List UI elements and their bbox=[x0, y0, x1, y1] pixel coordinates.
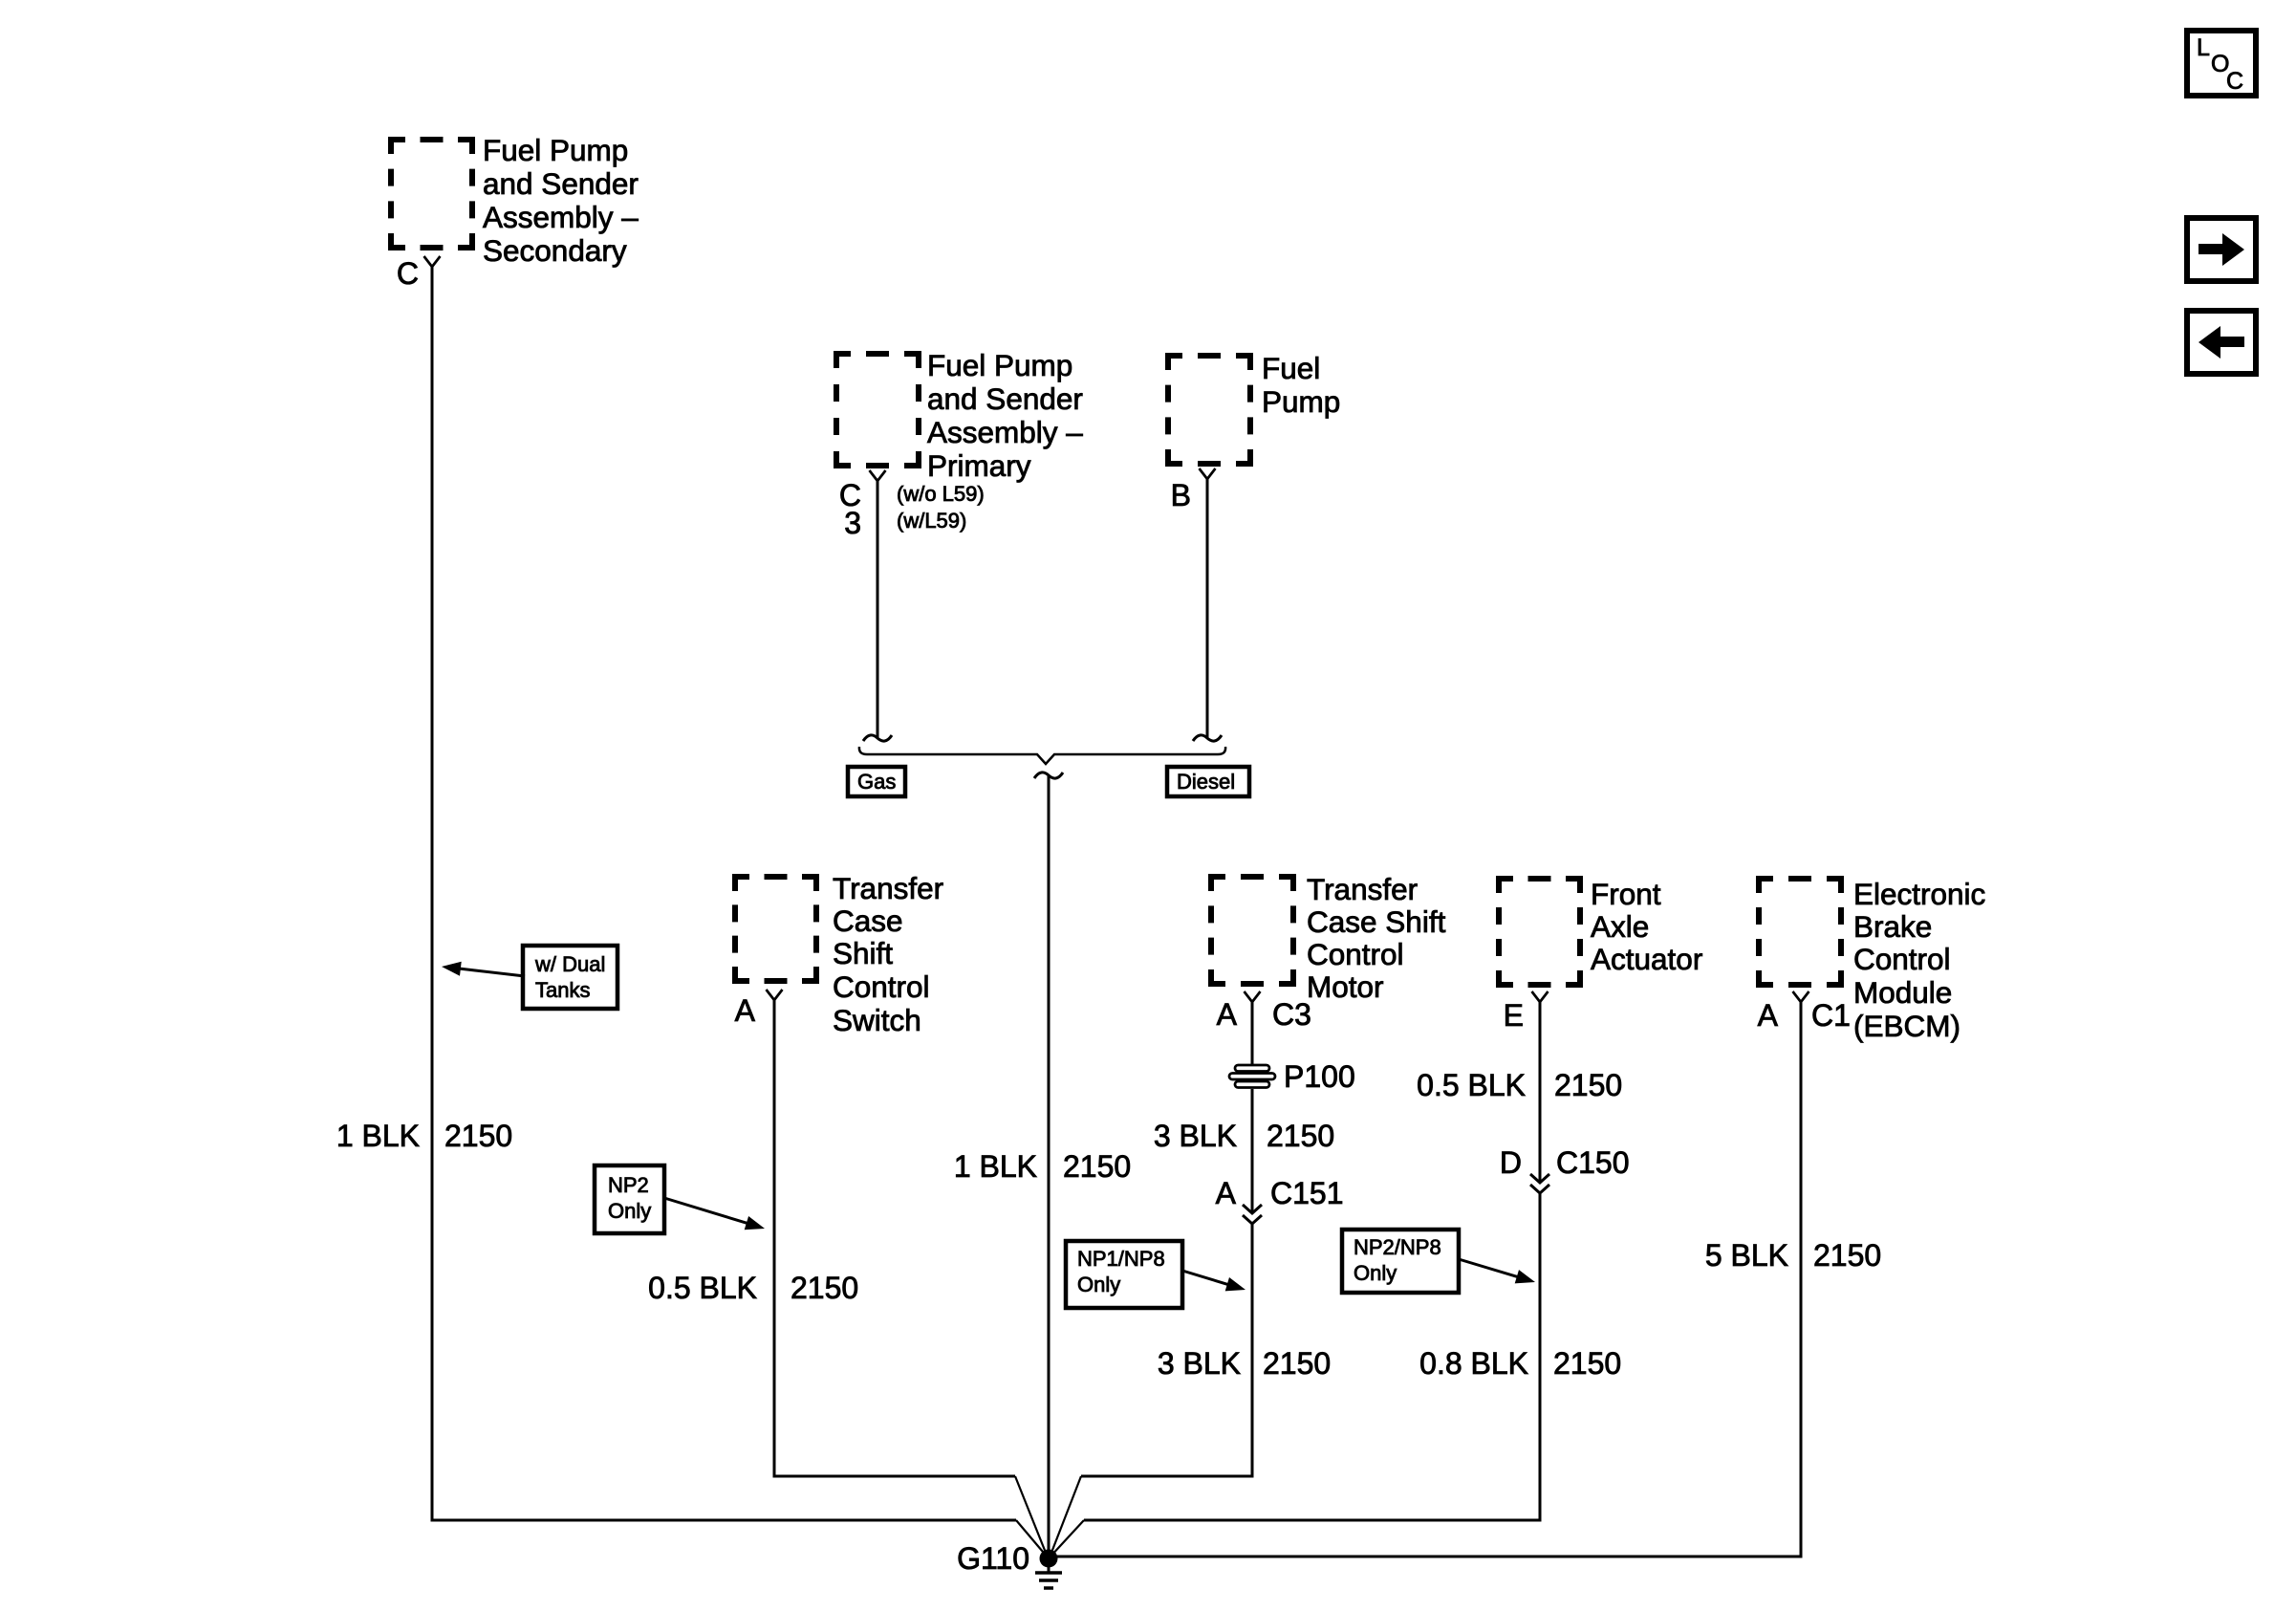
svg-text:Actuator: Actuator bbox=[1591, 942, 1702, 976]
svg-text:Assembly –: Assembly – bbox=[483, 200, 639, 234]
svg-text:C: C bbox=[2226, 68, 2243, 95]
wire center ground bbox=[1048, 776, 1051, 1558]
svg-text:A: A bbox=[1758, 998, 1779, 1033]
svg-text:Only: Only bbox=[1354, 1261, 1397, 1285]
svg-text:w/ Dual: w/ Dual bbox=[534, 952, 605, 976]
connector at pin E bbox=[1532, 991, 1549, 1002]
connector at pin A EBCM bbox=[1793, 991, 1809, 1002]
svg-text:NP2: NP2 bbox=[608, 1173, 649, 1197]
svg-text:0.5 BLK: 0.5 BLK bbox=[1417, 1068, 1526, 1102]
component Front Axle Actuator (dashed box) bbox=[1499, 879, 1580, 985]
svg-text:Case: Case bbox=[833, 903, 903, 938]
page icon LOC bbox=[2187, 31, 2256, 96]
svg-text:G110: G110 bbox=[957, 1541, 1029, 1576]
svg-text:and Sender: and Sender bbox=[927, 381, 1083, 416]
wire label 3 BLK 2150 (upper) bbox=[1154, 1119, 1334, 1153]
svg-text:Front: Front bbox=[1591, 877, 1661, 911]
option box Gas bbox=[848, 767, 905, 796]
svg-text:1 BLK: 1 BLK bbox=[954, 1149, 1037, 1184]
svg-text:(EBCM): (EBCM) bbox=[1853, 1009, 1960, 1043]
wire EBCM to ground bbox=[1057, 1002, 1801, 1557]
label Electronic Brake Control Module (EBCM) bbox=[1853, 877, 1985, 1043]
svg-text:3 BLK: 3 BLK bbox=[1158, 1346, 1241, 1381]
svg-text:Electronic: Electronic bbox=[1853, 877, 1985, 911]
arrow NP2 Only to switch wire bbox=[664, 1198, 750, 1224]
svg-text:Control: Control bbox=[1307, 937, 1404, 971]
svg-text:Pump: Pump bbox=[1262, 384, 1340, 419]
wire actuator to C150 bbox=[1539, 1002, 1542, 1182]
svg-text:2150: 2150 bbox=[1063, 1149, 1131, 1184]
page icon arrow right bbox=[2187, 218, 2256, 281]
svg-text:D: D bbox=[1500, 1145, 1522, 1180]
svg-text:Switch: Switch bbox=[833, 1003, 921, 1037]
svg-text:Brake: Brake bbox=[1853, 909, 1932, 944]
arrow w/ Dual Tanks to wire bbox=[457, 969, 525, 976]
svg-text:Diesel: Diesel bbox=[1177, 770, 1235, 794]
label Fuel Pump and Sender Assembly - Secondary bbox=[483, 133, 639, 268]
callout box NP2 Only bbox=[595, 1165, 664, 1233]
wire label 0.8 BLK 2150 bbox=[1419, 1346, 1621, 1381]
svg-text:E: E bbox=[1504, 998, 1524, 1033]
svg-text:Case Shift: Case Shift bbox=[1307, 904, 1446, 939]
svg-text:Tanks: Tanks bbox=[535, 978, 590, 1002]
label Transfer Case Shift Control Motor bbox=[1307, 872, 1446, 1004]
connector C151 bbox=[1243, 1205, 1262, 1224]
svg-text:Fuel: Fuel bbox=[1262, 351, 1320, 385]
connector at pin A motor bbox=[1245, 991, 1261, 1002]
svg-text:0.5 BLK: 0.5 BLK bbox=[648, 1271, 757, 1305]
option box Diesel bbox=[1167, 767, 1249, 796]
connector C150 bbox=[1530, 1174, 1549, 1193]
wire label 1 BLK 2150 (secondary) bbox=[336, 1119, 512, 1153]
svg-text:A: A bbox=[1217, 997, 1238, 1032]
ground symbol bbox=[1035, 1558, 1062, 1588]
arrow NP1/NP8 to motor wire bbox=[1182, 1271, 1231, 1285]
label Front Axle Actuator bbox=[1591, 877, 1702, 976]
svg-text:P100: P100 bbox=[1284, 1059, 1355, 1094]
label Fuel Pump bbox=[1262, 351, 1340, 419]
callout box NP1/NP8 Only bbox=[1066, 1241, 1182, 1308]
wire end squiggle (primary) bbox=[863, 735, 892, 741]
wire label 5 BLK 2150 bbox=[1705, 1238, 1881, 1273]
svg-text:2150: 2150 bbox=[444, 1119, 512, 1153]
svg-text:B: B bbox=[1171, 478, 1191, 512]
component Transfer Case Shift Control Motor (dashed box) bbox=[1211, 877, 1293, 984]
svg-text:Fuel Pump: Fuel Pump bbox=[927, 348, 1072, 382]
wire end squiggle (diesel) bbox=[1193, 735, 1222, 741]
ground node G110 dot bbox=[1040, 1550, 1058, 1568]
svg-text:Fuel Pump: Fuel Pump bbox=[483, 133, 628, 167]
svg-text:C150: C150 bbox=[1556, 1145, 1630, 1180]
connector at pin C bbox=[424, 256, 441, 267]
svg-text:2150: 2150 bbox=[791, 1271, 858, 1305]
wire switch ground path bbox=[774, 1000, 1015, 1476]
svg-text:Module: Module bbox=[1853, 975, 1952, 1010]
component Fuel Pump and Sender Assembly - Secondary (dashed box) bbox=[391, 140, 472, 248]
svg-text:C151: C151 bbox=[1270, 1176, 1344, 1210]
svg-text:Gas: Gas bbox=[857, 770, 896, 794]
wire label 3 BLK 2150 (lower) bbox=[1158, 1346, 1331, 1381]
component Fuel Pump and Sender Assembly - Primary (dashed box) bbox=[836, 354, 919, 466]
wire diesel to brace bbox=[1206, 479, 1209, 737]
svg-text:Transfer: Transfer bbox=[833, 871, 943, 905]
connector at pin A switch bbox=[767, 990, 783, 1000]
svg-text:Control: Control bbox=[833, 969, 930, 1004]
svg-text:Motor: Motor bbox=[1307, 969, 1384, 1004]
svg-text:NP1/NP8: NP1/NP8 bbox=[1077, 1247, 1165, 1271]
svg-text:(w/L59): (w/L59) bbox=[897, 509, 966, 533]
component Electronic Brake Control Module EBCM (dashed box) bbox=[1759, 879, 1841, 985]
svg-text:3 BLK: 3 BLK bbox=[1154, 1119, 1237, 1153]
svg-text:Shift: Shift bbox=[833, 936, 893, 970]
page icon arrow left bbox=[2187, 311, 2256, 374]
svg-text:C1: C1 bbox=[1811, 998, 1851, 1033]
component Transfer Case Shift Control Switch (dashed box) bbox=[735, 877, 816, 981]
svg-text:2150: 2150 bbox=[1263, 1346, 1331, 1381]
grommet P100 bbox=[1229, 1065, 1275, 1088]
wire secondary ground path bbox=[432, 267, 1016, 1520]
squiggle below brace bbox=[1034, 773, 1063, 778]
connector at pin C3 bbox=[870, 470, 886, 481]
wire P100 to C151 bbox=[1251, 1089, 1254, 1212]
brace gas/diesel merge bbox=[859, 747, 1225, 764]
svg-text:Only: Only bbox=[608, 1199, 651, 1223]
svg-text:NP2/NP8: NP2/NP8 bbox=[1354, 1235, 1441, 1259]
pin C3 (primary) bbox=[839, 478, 861, 540]
svg-text:A: A bbox=[735, 993, 756, 1028]
wire primary to gas brace bbox=[877, 481, 879, 737]
svg-text:Secondary: Secondary bbox=[483, 233, 627, 268]
svg-text:3: 3 bbox=[844, 506, 861, 540]
component Fuel Pump (dashed box) bbox=[1168, 356, 1250, 464]
callout box w/ Dual Tanks bbox=[523, 946, 617, 1009]
arrow NP2/NP8 to actuator wire bbox=[1459, 1259, 1521, 1277]
callout box NP2/NP8 Only bbox=[1342, 1230, 1459, 1293]
svg-text:Primary: Primary bbox=[927, 448, 1031, 483]
wire motor to P100 bbox=[1251, 1002, 1254, 1067]
svg-text:Transfer: Transfer bbox=[1307, 872, 1418, 906]
svg-text:Assembly –: Assembly – bbox=[927, 415, 1083, 449]
wire label 0.5 BLK 2150 (switch) bbox=[648, 1271, 858, 1305]
connector at pin B bbox=[1200, 468, 1216, 479]
wire C150 to ground bbox=[1084, 1193, 1540, 1520]
svg-text:2150: 2150 bbox=[1554, 1068, 1622, 1102]
label Transfer Case Shift Control Switch bbox=[833, 871, 943, 1037]
svg-text:5 BLK: 5 BLK bbox=[1705, 1238, 1788, 1273]
svg-text:2150: 2150 bbox=[1267, 1119, 1334, 1153]
wire label 1 BLK 2150 (center) bbox=[954, 1149, 1131, 1184]
wire label 0.5 BLK 2150 (actuator) bbox=[1417, 1068, 1622, 1102]
svg-text:C: C bbox=[397, 256, 419, 291]
svg-text:L: L bbox=[2197, 34, 2210, 61]
svg-text:2150: 2150 bbox=[1553, 1346, 1621, 1381]
svg-text:C3: C3 bbox=[1272, 997, 1311, 1032]
svg-text:and Sender: and Sender bbox=[483, 166, 639, 201]
svg-text:2150: 2150 bbox=[1813, 1238, 1881, 1273]
wire C151 to ground bbox=[1081, 1224, 1252, 1476]
svg-text:(w/o L59): (w/o L59) bbox=[897, 482, 985, 506]
label Fuel Pump and Sender Assembly - Primary bbox=[927, 348, 1083, 483]
svg-text:Axle: Axle bbox=[1591, 909, 1649, 944]
svg-text:1 BLK: 1 BLK bbox=[336, 1119, 420, 1153]
svg-text:A: A bbox=[1216, 1176, 1237, 1210]
svg-text:0.8 BLK: 0.8 BLK bbox=[1419, 1346, 1528, 1381]
svg-text:Control: Control bbox=[1853, 942, 1951, 976]
svg-text:Only: Only bbox=[1077, 1273, 1120, 1296]
